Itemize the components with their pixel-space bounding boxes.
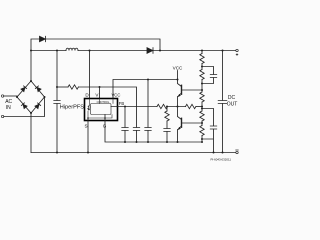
resistor R8 divider (200, 111, 204, 121)
capacitor C3 VCC (145, 128, 151, 131)
wire AC top to bridge (4, 95, 17, 97)
resistor R1 V-sense (68, 85, 78, 89)
wire R6 to R7 (201, 80, 203, 93)
node Q1 emitter FB (177, 106, 179, 108)
wire top bypass rail (31, 39, 160, 51)
wire internal ground bus (88, 115, 112, 119)
svg-text:DC: DC (228, 95, 236, 101)
svg-text:S: S (84, 123, 87, 128)
control block U1 (91, 104, 112, 115)
wire main rail middle (78, 50, 147, 52)
capacitor C7 loop lower (202, 109, 217, 153)
wire D pin (89, 51, 91, 99)
terminal DC OUT plus (236, 49, 238, 51)
node bridge bottom corner (30, 112, 32, 114)
bridge rectifier diamond (17, 81, 45, 113)
wire VCC cap upper (147, 80, 149, 128)
svg-text:VCC: VCC (173, 65, 183, 70)
wire C5 to G bus (166, 132, 168, 143)
node output cap rail tap (222, 50, 224, 52)
node compensation branch (166, 106, 168, 108)
node FB cap tap (124, 106, 126, 108)
wire S pin to ground (87, 118, 89, 153)
node Q2 emitter G bus (177, 141, 179, 143)
capacitor C8 output (218, 101, 227, 104)
wire FB middle (168, 106, 186, 108)
diode D6 boost (147, 48, 153, 54)
node C5 G bus (166, 141, 168, 143)
resistor R5 divider (200, 54, 204, 64)
node V pin tap (99, 86, 101, 88)
wire R4 branch upper (166, 107, 168, 112)
wire C3 to G bus (147, 131, 149, 143)
node divider rail tap (201, 50, 203, 52)
node bridge top corner (30, 80, 32, 82)
svg-text:D: D (85, 93, 89, 98)
svg-text:OUT: OUT (227, 102, 238, 108)
wire main rail left (31, 50, 66, 52)
node lower loop bottom (201, 138, 203, 140)
node D pin rail tap (89, 50, 91, 52)
node lower loop top (201, 108, 203, 110)
diode D4 bridge lower-right (35, 103, 41, 109)
resistor R9 divider (200, 126, 204, 136)
capacitor C5 compensation (164, 129, 170, 132)
wire ground rail (31, 152, 236, 154)
wire VCC rail (113, 80, 178, 104)
wire R9 to loop bottom (201, 136, 203, 143)
wire C4 to G bus (124, 131, 126, 143)
wire V-sense left (57, 86, 68, 88)
node bridge right corner (44, 96, 46, 98)
node internal G (104, 117, 106, 119)
capacitor C1 (54, 101, 60, 104)
svg-text:CONTROL: CONTROL (97, 100, 110, 104)
resistor R6 divider (200, 70, 204, 80)
svg-text:HiperPFS: HiperPFS (60, 105, 85, 111)
node C4 G bus (124, 141, 126, 143)
wire output cap lower (222, 104, 224, 153)
node boost diode junction (159, 50, 161, 52)
wire V pin (99, 87, 101, 104)
node G bus end (201, 141, 203, 143)
node C7 ground (213, 152, 215, 154)
node FB divider junction (201, 106, 203, 108)
svg-text:V: V (95, 93, 99, 98)
resistor R4 compensation (165, 111, 169, 121)
node upper loop top (201, 66, 203, 68)
wire AC bottom to bridge right corner (4, 97, 45, 117)
resistor R7 divider (200, 92, 204, 102)
wire V-divider upper (56, 51, 58, 101)
diode D5 bypass (40, 36, 46, 41)
transistor Q1 (178, 80, 203, 107)
svg-text:PI-6043-032011: PI-6043-032011 (210, 157, 231, 161)
terminal AC bottom (1, 115, 3, 117)
terminal AC top (1, 95, 3, 97)
node Q2 base junction (201, 122, 203, 124)
node C3 G bus (147, 141, 149, 143)
transistor Q2 (178, 107, 203, 143)
wire G pin and G bus (105, 115, 202, 143)
svg-text:VCC: VCC (112, 92, 121, 97)
capacitor C6 loop upper (202, 67, 217, 84)
wire R8 to R9 (201, 121, 203, 126)
wire FB line (111, 106, 157, 108)
wire VCC pin internal stub (112, 99, 114, 104)
terminal DC OUT minus (236, 151, 238, 153)
polarity plus mark (236, 53, 238, 55)
wire VCC supply stub (177, 71, 179, 80)
svg-text:G: G (103, 123, 107, 128)
wire R7 to FB node (201, 102, 203, 111)
capacitor C4 FB filter (122, 128, 128, 131)
wire R5 to R6 (201, 64, 203, 70)
node bridge left corner (16, 96, 18, 98)
node Q1 base junction (201, 89, 203, 91)
wire R4 to C5 (166, 121, 168, 128)
svg-text:IN: IN (6, 105, 11, 111)
node VCC cap tap (147, 79, 149, 81)
resistor R3 FB right (186, 104, 196, 108)
wire V-sense right (79, 87, 137, 127)
node C2 G bus (136, 141, 138, 143)
wire main rail right (153, 50, 236, 52)
polarity minus mark (236, 149, 239, 151)
wire bridge bottom to ground rail (30, 113, 32, 153)
wire C4 upper (124, 107, 126, 128)
wire V pin internal stub (99, 99, 101, 104)
node C1 ground (56, 152, 58, 154)
node V-sense tap (56, 86, 58, 88)
node V-divider rail tap (56, 50, 58, 52)
node rail-bridge junction (30, 50, 32, 52)
inductor L1 (66, 48, 78, 50)
resistor R2 FB (157, 104, 167, 108)
diode D1 bridge upper-left (21, 86, 27, 92)
IC U1 HiperPFS box (85, 99, 118, 121)
node upper loop bottom (201, 83, 203, 85)
diode D3 bridge lower-left (21, 103, 27, 109)
wire C2 to G bus (136, 131, 138, 143)
node internal S (87, 117, 89, 119)
node S ground (87, 152, 89, 154)
diode D2 bridge upper-right (35, 86, 41, 92)
svg-text:FB: FB (119, 101, 125, 106)
wire divider top (201, 51, 203, 54)
mosfet Q3 internal (87, 99, 91, 119)
capacitor C2 V filter (133, 128, 139, 131)
wire FB to divider (196, 106, 202, 108)
wire C1 to ground (56, 104, 58, 153)
wire output cap upper (222, 51, 224, 101)
node output cap ground (222, 152, 224, 154)
wire bridge top to rail (30, 51, 32, 82)
node VCC supply (177, 79, 179, 81)
